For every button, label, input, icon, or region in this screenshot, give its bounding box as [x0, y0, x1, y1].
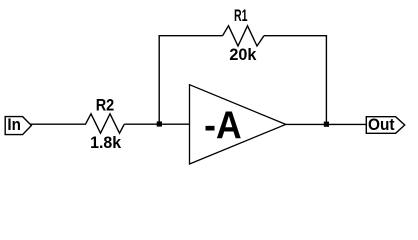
port In label "In": [7, 116, 21, 134]
port Out label "Out": [368, 116, 395, 134]
op-amp U1 (gain block -A): [190, 85, 286, 164]
wire: left feedback vertical riser: [158, 36, 160, 125]
svg-text:1.8k: 1.8k: [90, 134, 122, 152]
svg-text:R2: R2: [96, 97, 115, 115]
resistor R2: [86, 114, 125, 133]
wire: R2 to op-amp input, through node A: [124, 123, 189, 125]
svg-text:In: In: [7, 116, 21, 134]
R2 reference label "R2": [96, 97, 115, 115]
op-amp gain label "-A": [204, 105, 242, 148]
port Out (output terminal tag): [366, 117, 404, 134]
svg-text:-A: -A: [204, 105, 242, 148]
R1 reference label "R1": [234, 7, 248, 25]
wire: input from In tag to R2: [31, 123, 87, 125]
svg-text:20k: 20k: [229, 46, 257, 64]
resistor R1: [223, 26, 264, 46]
R1 value label "20k": [229, 46, 257, 64]
wire: top feedback right segment: [264, 35, 327, 37]
svg-text:R1: R1: [234, 7, 248, 25]
svg-text:Out: Out: [368, 116, 395, 134]
wire: top feedback left segment: [159, 35, 223, 37]
port In (input terminal tag): [5, 117, 31, 135]
R2 value label "1.8k": [90, 134, 122, 152]
wire: right feedback vertical riser: [325, 36, 327, 125]
node A (junction dot at op-amp input): [157, 121, 162, 126]
node B (junction dot at op-amp output): [324, 122, 329, 127]
wire: op-amp output to Out tag, through node B: [286, 123, 367, 125]
